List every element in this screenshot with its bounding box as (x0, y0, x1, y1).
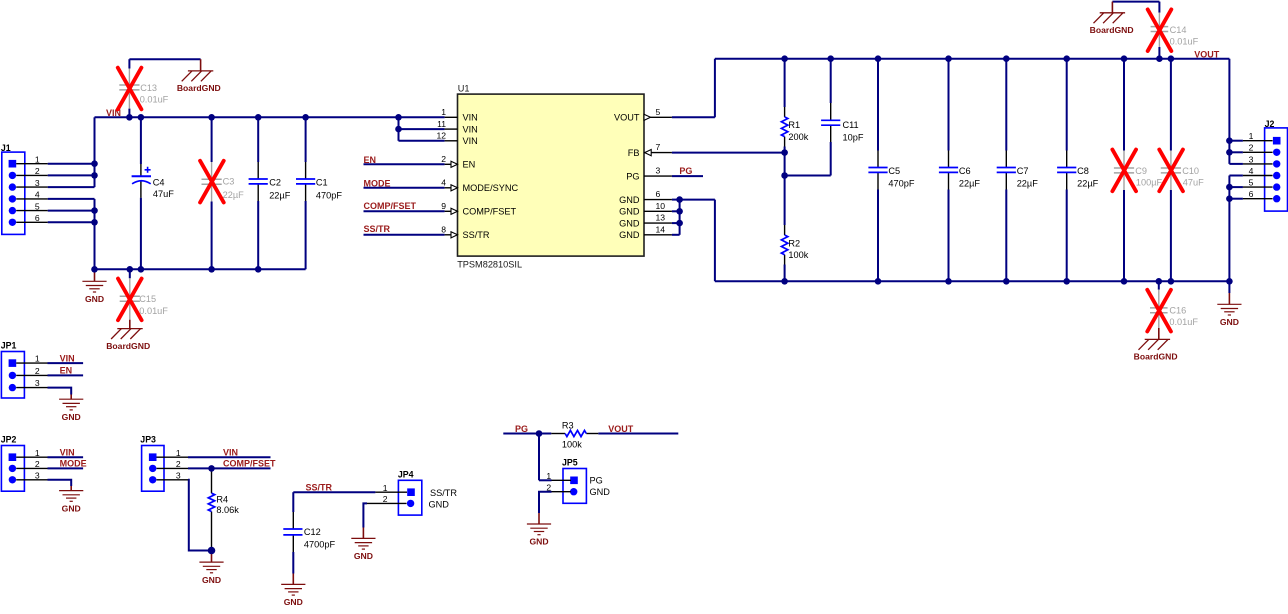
svg-text:GND: GND (590, 487, 611, 497)
svg-text:2: 2 (1249, 143, 1254, 153)
svg-text:JP2: JP2 (1, 435, 17, 445)
svg-text:2: 2 (546, 483, 551, 493)
svg-text:R4: R4 (216, 495, 228, 505)
svg-text:VIN: VIN (60, 353, 75, 363)
svg-text:3: 3 (656, 166, 661, 176)
svg-text:C3: C3 (223, 177, 235, 187)
svg-text:GND: GND (619, 230, 640, 240)
svg-text:VIN: VIN (463, 113, 478, 123)
svg-text:BoardGND: BoardGND (1090, 25, 1134, 35)
svg-text:1: 1 (546, 471, 551, 481)
svg-text:C9: C9 (1135, 166, 1147, 176)
svg-text:7: 7 (656, 142, 661, 152)
svg-text:8.06k: 8.06k (216, 505, 239, 515)
svg-text:22µF: 22µF (223, 190, 245, 200)
svg-text:47uF: 47uF (1183, 178, 1204, 188)
svg-text:BoardGND: BoardGND (1134, 352, 1178, 362)
svg-text:1: 1 (1249, 131, 1254, 141)
svg-text:10: 10 (656, 201, 666, 211)
svg-text:JP1: JP1 (1, 341, 17, 351)
svg-text:C13: C13 (140, 83, 157, 93)
svg-text:GND: GND (529, 537, 548, 547)
svg-text:EN: EN (463, 160, 476, 170)
svg-text:2: 2 (35, 459, 40, 469)
svg-text:COMP/FSET: COMP/FSET (463, 207, 517, 217)
svg-text:5: 5 (656, 107, 661, 117)
svg-text:R2: R2 (788, 238, 800, 248)
svg-text:0.01uF: 0.01uF (140, 95, 169, 105)
svg-text:0.01uF: 0.01uF (1169, 317, 1198, 327)
svg-text:1: 1 (35, 155, 40, 165)
svg-text:2: 2 (383, 494, 388, 504)
svg-text:C2: C2 (269, 177, 281, 187)
svg-text:COMP/FSET: COMP/FSET (364, 201, 417, 211)
svg-text:EN: EN (364, 155, 377, 165)
svg-text:0.01uF: 0.01uF (1170, 36, 1199, 46)
svg-text:12: 12 (436, 131, 446, 141)
svg-text:BoardGND: BoardGND (106, 341, 150, 351)
svg-text:J2: J2 (1265, 119, 1275, 129)
svg-text:3: 3 (35, 378, 40, 388)
svg-text:1: 1 (35, 354, 40, 364)
svg-text:SS/TR: SS/TR (430, 488, 457, 498)
svg-text:4: 4 (35, 190, 40, 200)
svg-text:C12: C12 (304, 527, 321, 537)
svg-text:COMP/FSET: COMP/FSET (223, 459, 276, 469)
svg-text:JP4: JP4 (398, 469, 414, 479)
svg-text:PG: PG (590, 475, 603, 485)
svg-text:GND: GND (354, 551, 373, 561)
svg-text:C16: C16 (1169, 306, 1186, 316)
svg-text:BoardGND: BoardGND (177, 83, 221, 93)
svg-text:2: 2 (35, 366, 40, 376)
svg-text:R1: R1 (788, 120, 800, 130)
svg-text:3: 3 (35, 470, 40, 480)
svg-text:11: 11 (437, 119, 446, 129)
svg-text:GND: GND (284, 597, 303, 607)
svg-text:GND: GND (619, 219, 640, 229)
svg-text:10pF: 10pF (843, 132, 864, 142)
svg-text:VOUT: VOUT (614, 113, 640, 123)
svg-text:JP3: JP3 (140, 435, 156, 445)
svg-text:C10: C10 (1182, 166, 1199, 176)
svg-text:GND: GND (429, 500, 450, 510)
svg-text:1: 1 (176, 448, 181, 458)
svg-text:6: 6 (35, 213, 40, 223)
svg-text:C1: C1 (316, 177, 328, 187)
svg-text:MODE: MODE (364, 178, 391, 188)
svg-text:PG: PG (515, 424, 528, 434)
svg-text:1: 1 (383, 483, 388, 493)
svg-text:VIN: VIN (223, 447, 238, 457)
svg-text:C4: C4 (153, 177, 165, 187)
svg-text:3: 3 (176, 470, 181, 480)
svg-text:MODE: MODE (60, 459, 87, 469)
svg-text:PG: PG (626, 172, 639, 182)
svg-text:MODE/SYNC: MODE/SYNC (463, 183, 519, 193)
svg-text:9: 9 (441, 201, 446, 211)
svg-text:2: 2 (176, 459, 181, 469)
svg-text:4700pF: 4700pF (304, 539, 336, 549)
svg-text:8: 8 (441, 225, 446, 235)
svg-text:1: 1 (441, 107, 446, 117)
svg-text:4: 4 (441, 178, 446, 188)
svg-text:SS/TR: SS/TR (306, 483, 333, 493)
svg-text:VIN: VIN (60, 447, 75, 457)
svg-text:GND: GND (619, 207, 640, 217)
svg-text:0.01uF: 0.01uF (139, 306, 168, 316)
svg-text:2: 2 (441, 154, 446, 164)
svg-text:EN: EN (60, 366, 73, 376)
svg-text:5: 5 (1249, 178, 1254, 188)
svg-text:VOUT: VOUT (608, 424, 634, 434)
svg-text:22µF: 22µF (959, 179, 981, 189)
svg-text:470pF: 470pF (316, 190, 342, 200)
svg-text:13: 13 (656, 213, 666, 223)
svg-text:47uF: 47uF (153, 189, 174, 199)
svg-text:GND: GND (202, 575, 221, 585)
svg-text:VIN: VIN (463, 125, 478, 135)
svg-text:470pF: 470pF (888, 179, 914, 189)
svg-text:GND: GND (62, 503, 81, 513)
svg-text:U1: U1 (458, 83, 470, 93)
svg-text:C14: C14 (1170, 25, 1187, 35)
svg-text:GND: GND (62, 412, 81, 422)
svg-text:C8: C8 (1077, 166, 1089, 176)
svg-text:14: 14 (656, 224, 666, 234)
svg-text:GND: GND (85, 294, 104, 304)
svg-text:2: 2 (35, 166, 40, 176)
svg-text:22µF: 22µF (269, 190, 291, 200)
svg-text:VIN: VIN (463, 136, 478, 146)
svg-text:3: 3 (1249, 154, 1254, 164)
svg-text:1: 1 (35, 448, 40, 458)
svg-text:VOUT: VOUT (1194, 50, 1220, 60)
svg-text:6: 6 (656, 189, 661, 199)
svg-text:PG: PG (679, 166, 692, 176)
svg-text:FB: FB (628, 148, 640, 158)
svg-text:SS/TR: SS/TR (364, 224, 391, 234)
svg-text:100k: 100k (788, 250, 808, 260)
svg-text:22µF: 22µF (1017, 179, 1039, 189)
svg-text:5: 5 (35, 201, 40, 211)
svg-text:JP5: JP5 (562, 457, 578, 467)
svg-text:C7: C7 (1017, 166, 1029, 176)
svg-text:GND: GND (1220, 317, 1239, 327)
svg-text:R3: R3 (562, 421, 574, 431)
svg-text:6: 6 (1249, 189, 1254, 199)
svg-text:J1: J1 (1, 143, 11, 153)
svg-text:C6: C6 (959, 166, 971, 176)
svg-text:22µF: 22µF (1077, 179, 1099, 189)
svg-text:100µF: 100µF (1136, 178, 1163, 188)
svg-text:C11: C11 (843, 120, 859, 130)
svg-text:200k: 200k (788, 132, 808, 142)
svg-text:TPSM82810SIL: TPSM82810SIL (457, 260, 522, 270)
svg-text:3: 3 (35, 178, 40, 188)
svg-text:C15: C15 (139, 294, 156, 304)
svg-text:4: 4 (1249, 166, 1254, 176)
svg-text:SS/TR: SS/TR (463, 230, 490, 240)
svg-text:C5: C5 (888, 166, 900, 176)
svg-text:GND: GND (619, 195, 640, 205)
svg-text:100k: 100k (562, 439, 582, 449)
